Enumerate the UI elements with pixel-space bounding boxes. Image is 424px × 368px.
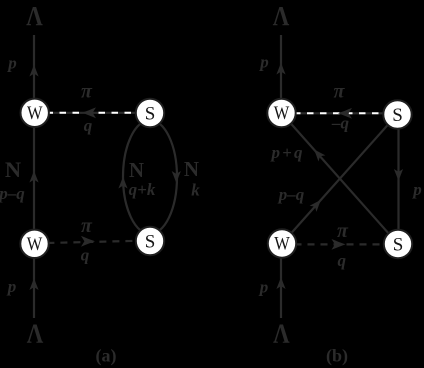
svg-text:p: p — [258, 278, 269, 297]
svg-text:W: W — [27, 234, 43, 255]
svg-text:S: S — [145, 103, 156, 124]
svg-text:–q: –q — [331, 113, 350, 132]
svg-text:p: p — [6, 54, 17, 73]
svg-text:Λ: Λ — [273, 1, 290, 31]
svg-text:p: p — [411, 180, 422, 199]
svg-text:q: q — [338, 251, 347, 270]
svg-text:k: k — [191, 181, 200, 200]
svg-text:(b): (b) — [326, 346, 348, 367]
svg-text:π: π — [337, 220, 349, 242]
svg-text:Λ: Λ — [273, 319, 290, 349]
svg-text:π: π — [334, 81, 346, 103]
svg-text:π: π — [81, 215, 93, 237]
svg-text:W: W — [274, 234, 290, 255]
svg-text:p+q: p+q — [270, 143, 304, 162]
svg-text:q+k: q+k — [129, 180, 156, 199]
svg-text:N: N — [129, 158, 144, 182]
svg-text:(a): (a) — [96, 346, 117, 367]
svg-text:p: p — [6, 277, 17, 296]
svg-text:p–q: p–q — [277, 185, 305, 204]
svg-text:p–q: p–q — [0, 184, 25, 203]
svg-text:N: N — [5, 157, 21, 182]
svg-text:q: q — [81, 246, 90, 265]
svg-text:q: q — [84, 116, 93, 135]
svg-text:p: p — [258, 53, 269, 72]
svg-text:S: S — [393, 234, 404, 255]
svg-text:S: S — [145, 231, 156, 252]
svg-text:N: N — [184, 157, 199, 181]
svg-text:Λ: Λ — [26, 1, 43, 31]
svg-text:S: S — [392, 105, 403, 126]
svg-text:W: W — [274, 103, 290, 124]
svg-text:Λ: Λ — [27, 319, 44, 349]
svg-text:π: π — [81, 81, 93, 103]
svg-text:W: W — [27, 103, 43, 124]
